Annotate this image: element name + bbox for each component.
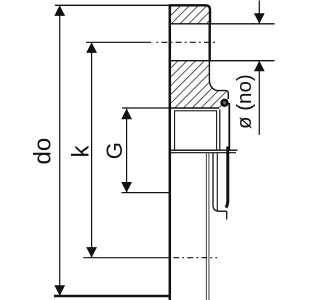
dimension line k [91, 42, 93, 257]
pipe wall inner line b [208, 153, 210, 300]
svg-text:ø (no): ø (no) [233, 74, 256, 129]
dimension line hole diameter lower tail [258, 61, 260, 135]
top extension line for do dimension [55, 4, 170, 6]
pipe wall inner line a [205, 153, 207, 300]
flange section hatch (upper band above bolt hole) [170, 5, 210, 24]
flange top outline edge [170, 5, 210, 24]
flange right outer edge [208, 24, 210, 62]
arrowhead hole diameter bottom (outside, pointing up) [254, 61, 265, 72]
extension line G bottom [122, 192, 170, 194]
lower bolt hole centerline dash-dot segment [173, 257, 217, 259]
arrowhead do top [54, 5, 65, 16]
flange shoulder step profile [209, 61, 228, 99]
bolt hole lower edge with extension line to diameter dimension [169, 60, 275, 62]
dimension line hole diameter upper tail [258, 1, 260, 24]
lower bolt hole centerline solid segment (k extension) [83, 257, 171, 259]
stub inner wall line [216, 153, 218, 211]
flange left outer edge / pipe outer wall [169, 4, 172, 300]
arrowhead do bottom [54, 285, 65, 296]
arrowhead hole diameter top (outside, pointing down) [254, 13, 265, 24]
flange bottom face line [169, 107, 220, 109]
arrowhead G bottom [121, 182, 132, 193]
svg-text:k: k [68, 145, 95, 158]
flange section hatch (lower region with shoulder step) [170, 61, 228, 108]
flange outer diameter bottom line [54, 295, 171, 298]
nut outer wall line [228, 103, 230, 150]
o-ring seal [222, 100, 228, 106]
arrowhead k bottom [86, 247, 97, 258]
bolt hole upper edge with extension line to diameter dimension [169, 23, 275, 25]
svg-text:G: G [102, 142, 127, 159]
nut bottom edge line [169, 149, 238, 151]
nut inner wall line [219, 110, 221, 151]
bolt hole centerline solid segment [86, 41, 151, 43]
stub outer thick line [226, 147, 228, 208]
arrowhead G top [121, 109, 132, 120]
dimension line G [126, 109, 128, 193]
bolt hole centerline dash-dot segment [156, 41, 216, 43]
nut bottom second edge line [169, 152, 236, 154]
svg-text:do: do [30, 138, 57, 165]
dimension line do [59, 5, 61, 296]
union nut cavity outline [175, 111, 217, 150]
arrowhead k top [86, 42, 97, 53]
extension line G top (flange bottom face) [122, 107, 169, 109]
stub end profile with fillet and hook [213, 153, 227, 220]
